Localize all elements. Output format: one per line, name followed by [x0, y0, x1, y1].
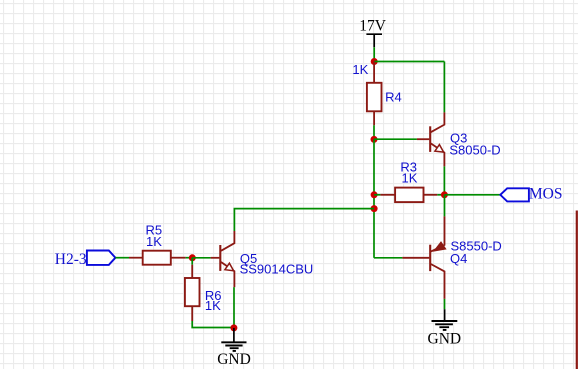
junction dot output node — [441, 191, 448, 198]
wire R4 bottom to base junction — [373, 125, 375, 139]
wire Q4 collector to GND — [444, 299, 446, 309]
svg-text:1K: 1K — [146, 234, 162, 249]
svg-text:1K: 1K — [352, 62, 368, 77]
wire output node to port MOS — [444, 194, 500, 196]
ground symbol right — [428, 309, 462, 347]
wire port to R5 — [115, 257, 129, 259]
svg-text:17V: 17V — [359, 17, 387, 34]
svg-text:GND: GND — [217, 351, 251, 368]
resistor R5 — [129, 251, 186, 265]
svg-text:1K: 1K — [402, 170, 418, 185]
junction dot Q5 collector wire — [371, 205, 378, 212]
svg-text:SS9014CBU: SS9014CBU — [240, 262, 314, 277]
transistor Q4 (PNP S8550-D) — [402, 216, 445, 299]
junction dot at Q3 base node — [371, 136, 378, 143]
svg-text:S8050-D: S8050-D — [449, 143, 500, 158]
junction dot Q5 base node — [189, 254, 196, 261]
ground symbol left — [217, 328, 251, 368]
junction dot at 17V node — [371, 58, 378, 65]
wire top horizontal to Q3 collector branch — [374, 61, 444, 63]
wire Q5 emitter down — [233, 287, 235, 327]
svg-text:1K: 1K — [205, 298, 221, 313]
wire R5 to junction — [186, 257, 193, 259]
svg-text:R4: R4 — [385, 89, 402, 104]
svg-text:Q4: Q4 — [450, 251, 467, 266]
port MOS — [500, 185, 562, 202]
resistor R3 — [374, 188, 444, 203]
wire Q3 emitter to output node — [443, 166, 445, 194]
junction dot R3 left — [371, 191, 378, 198]
wire Q5 base — [192, 257, 210, 259]
svg-text:H2-3: H2-3 — [55, 251, 87, 268]
wire R6 bottom to emitter node — [192, 321, 234, 328]
power port 17V — [359, 17, 387, 47]
resistor R6 — [185, 265, 200, 321]
wire Q4 base from rail — [374, 257, 402, 259]
resistor R4 — [367, 62, 382, 126]
wire Q5 collector up and right to rail — [234, 209, 374, 231]
wire R6 top from base node — [191, 258, 193, 265]
transistor Q3 (NPN S8050-D) — [417, 112, 445, 166]
wire vertical down to Q3 collector — [443, 62, 445, 113]
svg-text:MOS: MOS — [529, 185, 563, 202]
wire 17V to junction — [373, 47, 375, 61]
transistor Q5 (NPN SS9014CBU) — [211, 231, 235, 287]
wire partial component at right edge — [576, 211, 578, 369]
wire Q3 base — [374, 138, 417, 140]
svg-text:GND: GND — [428, 331, 462, 348]
junction dot emitter node — [230, 324, 237, 331]
wire output node down to Q4 emitter — [444, 195, 446, 217]
wire left rail — [373, 139, 375, 257]
port H2-3 — [55, 251, 116, 269]
